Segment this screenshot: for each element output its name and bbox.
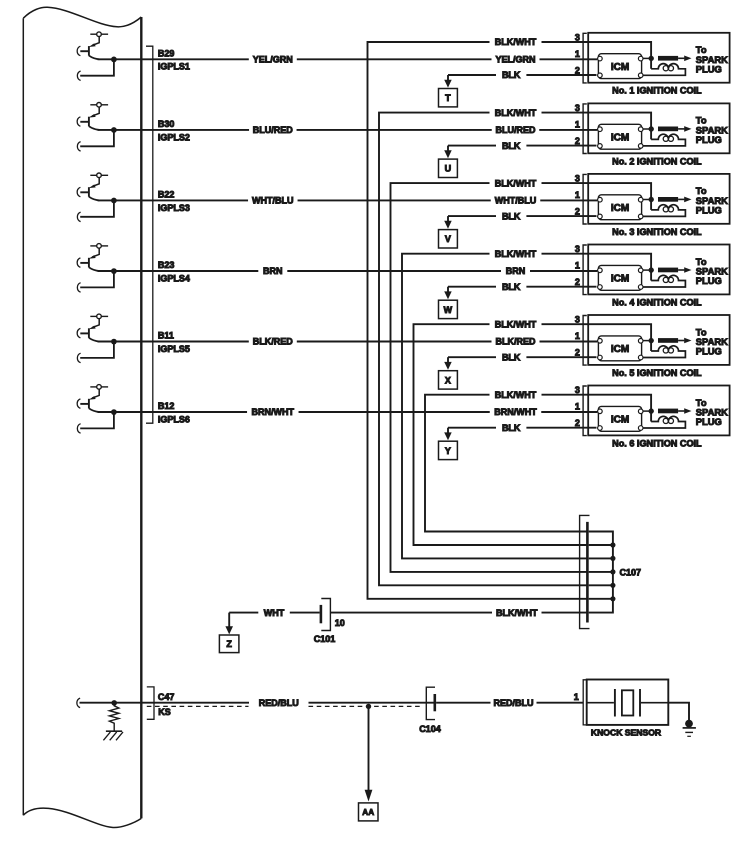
label To SPARK PLUG (No.6) [696, 397, 728, 427]
wire RED/BLU from C47 to C104 [141, 702, 433, 704]
svg-text:BLK: BLK [502, 141, 521, 151]
svg-text:W: W [444, 305, 453, 315]
svg-text:BLK/WHT: BLK/WHT [496, 608, 538, 618]
svg-text:BRN: BRN [506, 266, 526, 276]
pin numbers 3,1,2 of No.3 coil [575, 174, 580, 217]
ignition coil L2 windings [643, 134, 685, 146]
svg-text:2: 2 [575, 207, 580, 217]
svg-text:ICM: ICM [611, 62, 629, 73]
svg-text:1: 1 [575, 402, 580, 412]
svg-text:BLK/WHT: BLK/WHT [495, 108, 537, 118]
svg-text:ICM: ICM [611, 132, 629, 143]
No.6 ignition coil unit box [588, 386, 729, 436]
svg-text:C47: C47 [158, 692, 175, 702]
svg-text:3: 3 [575, 174, 580, 184]
connector bracket at No.4 coil [583, 245, 587, 295]
svg-text:V: V [445, 234, 451, 244]
svg-text:RED/BLU: RED/BLU [259, 698, 299, 708]
svg-text:BLK/WHT: BLK/WHT [495, 319, 537, 329]
svg-text:1: 1 [575, 261, 580, 271]
ignition coil L5 windings [643, 346, 685, 358]
wire: Q2 return branch with junction [77, 127, 116, 151]
No.2 ignition coil unit box [588, 103, 729, 153]
label pin B30 / net IGPLS2 [158, 119, 190, 142]
ignition coil L1 windings [643, 64, 685, 76]
wire BLK from No.4 coil pin 2 to test point W [448, 286, 597, 288]
svg-text:IGPLS4: IGPLS4 [158, 273, 190, 283]
test point AA (arrow + box) [359, 706, 379, 821]
svg-text:1: 1 [575, 190, 580, 200]
connector bracket for ECM pin C47 (KS) [147, 687, 154, 719]
transistor Q1 (IGPLS1 driver) [77, 32, 108, 59]
svg-text:Y: Y [445, 446, 451, 456]
svg-text:C101: C101 [314, 634, 336, 644]
svg-text:BLK: BLK [502, 423, 521, 433]
svg-text:IGPLS3: IGPLS3 [158, 203, 190, 213]
transistor Q6 (IGPLS6 driver) [77, 385, 108, 412]
svg-text:BLK/WHT: BLK/WHT [495, 37, 537, 47]
wire BLK from No.2 coil pin 2 to test point U [448, 145, 597, 147]
wire: Q3 return branch with junction [77, 198, 116, 222]
svg-text:BLK/RED: BLK/RED [496, 337, 536, 347]
wire YEL/GRN from ECM pin B29 to No.1 coil pin 1 [98, 58, 598, 60]
label pin C47 / net KS [158, 692, 175, 717]
svg-text:2: 2 [575, 418, 580, 428]
label pin B22 / net IGPLS3 [158, 190, 190, 213]
label pin B11 / net IGPLS5 [158, 331, 190, 354]
transistor Q5 (IGPLS5 driver) [77, 314, 108, 341]
svg-text:1: 1 [574, 692, 579, 702]
svg-text:PLUG: PLUG [696, 64, 722, 75]
svg-text:1: 1 [575, 120, 580, 130]
svg-text:2: 2 [575, 65, 580, 75]
svg-text:1: 1 [575, 331, 580, 341]
svg-text:ICM: ICM [611, 344, 629, 355]
svg-text:KNOCK SENSOR: KNOCK SENSOR [591, 728, 662, 738]
svg-text:3: 3 [575, 315, 580, 325]
connector C101 (pin 10) [321, 599, 331, 631]
svg-text:AA: AA [362, 808, 374, 817]
test point W (arrow + box) [439, 287, 458, 319]
pin numbers 3,1,2 of No.4 coil [575, 244, 580, 287]
No.1 ignition coil unit box [588, 33, 729, 83]
wire BLK/WHT from No.4 coil pin 3 to C107 [402, 254, 588, 559]
ICM U3 (igniter) [598, 195, 643, 220]
knock sensor box [587, 680, 669, 725]
svg-text:KS: KS [158, 707, 171, 717]
svg-text:BLK: BLK [502, 211, 521, 221]
svg-text:No. 6 IGNITION COIL: No. 6 IGNITION COIL [612, 438, 702, 448]
svg-text:ICM: ICM [611, 203, 629, 214]
coil secondary output bar + arrow to spark plug [658, 267, 692, 273]
chassis ground (ECM internal) [103, 731, 123, 740]
test point V (arrow + box) [439, 216, 458, 248]
wire BLK from No.5 coil pin 2 to test point X [448, 356, 597, 358]
svg-text:BRN/WHT: BRN/WHT [494, 407, 537, 417]
svg-text:B22: B22 [158, 190, 175, 200]
label To SPARK PLUG (No.2) [696, 115, 728, 145]
svg-text:B23: B23 [158, 260, 175, 270]
connector bracket for ECM pins B29-B12 [146, 46, 153, 423]
ignition coil L6 windings [643, 416, 685, 428]
transistor Q2 (IGPLS2 driver) [77, 103, 108, 130]
svg-text:B12: B12 [158, 401, 175, 411]
svg-text:BLK: BLK [502, 70, 521, 80]
wire BLK/WHT from No.1 coil pin 3 to C107 [368, 42, 589, 599]
svg-text:PLUG: PLUG [696, 205, 722, 216]
test point T (arrow + box) [439, 75, 458, 107]
wire to sensor ground [668, 703, 689, 722]
svg-text:No. 3 IGNITION COIL: No. 3 IGNITION COIL [612, 227, 702, 237]
ICM U1 (igniter) [598, 54, 643, 79]
svg-text:PLUG: PLUG [696, 346, 722, 357]
connector bracket at No.3 coil [583, 174, 587, 224]
test point Y (arrow + box) [439, 428, 458, 460]
knock sensor piezo element [587, 689, 669, 717]
svg-text:BLK/WHT: BLK/WHT [495, 178, 537, 188]
wire BLK/WHT from No.3 coil pin 3 to C107 [391, 183, 589, 572]
svg-text:BLK: BLK [502, 282, 521, 292]
label To SPARK PLUG (No.1) [696, 44, 728, 74]
svg-text:WHT: WHT [264, 608, 285, 618]
transistor Q3 (IGPLS3 driver) [77, 173, 108, 200]
coil secondary output bar + arrow to spark plug [658, 56, 692, 62]
coil secondary output bar + arrow to spark plug [658, 408, 692, 414]
wire BRN/WHT from ECM pin B12 to No.6 coil pin 1 [98, 411, 598, 413]
wire BLK/WHT from C101 to C107 [330, 612, 587, 614]
label pin B29 / net IGPLS1 [158, 48, 190, 71]
svg-text:No. 4 IGNITION COIL: No. 4 IGNITION COIL [612, 297, 702, 307]
pin numbers 3,1,2 of No.6 coil [575, 385, 580, 428]
svg-text:10: 10 [335, 618, 345, 628]
wire BLK from No.6 coil pin 2 to test point Y [448, 427, 597, 429]
wire: Q4 return branch with junction [77, 268, 116, 292]
wire RED/BLU from C104 to knock sensor [436, 702, 583, 704]
ICM U6 (igniter) [598, 406, 643, 431]
svg-text:PLUG: PLUG [696, 416, 722, 427]
svg-text:1: 1 [575, 49, 580, 59]
svg-text:U: U [445, 164, 452, 174]
svg-text:ICM: ICM [611, 274, 629, 285]
label pin B23 / net IGPLS4 [158, 260, 190, 283]
ECM internal pull-up resistor R1 on KS line [77, 698, 141, 731]
svg-text:Z: Z [226, 639, 232, 649]
wire: coil pin 3 internal to primary (node at junction) [588, 42, 654, 69]
svg-text:WHT/BLU: WHT/BLU [495, 196, 537, 206]
wire: C107 common bus (right side) [589, 532, 616, 613]
svg-text:IGPLS2: IGPLS2 [158, 132, 190, 142]
svg-text:3: 3 [575, 32, 580, 42]
svg-text:No. 2 IGNITION COIL: No. 2 IGNITION COIL [612, 156, 702, 166]
svg-text:No. 1 IGNITION COIL: No. 1 IGNITION COIL [612, 86, 702, 96]
svg-text:B11: B11 [158, 331, 174, 341]
connector bracket at knock sensor [583, 680, 587, 725]
wire BLK from No.1 coil pin 2 to test point T [448, 74, 597, 76]
svg-text:3: 3 [575, 244, 580, 254]
svg-text:3: 3 [575, 385, 580, 395]
svg-text:WHT/BLU: WHT/BLU [252, 196, 294, 206]
connector bracket at No.5 coil [583, 316, 587, 366]
wire BLK/RED from ECM pin B11 to No.5 coil pin 1 [98, 341, 598, 343]
svg-text:BRN: BRN [263, 266, 283, 276]
ECM/PCM module outline (torn-edge box) [23, 7, 141, 827]
svg-text:PLUG: PLUG [696, 134, 722, 145]
svg-text:BLU/RED: BLU/RED [253, 125, 293, 135]
ICM U5 (igniter) [598, 336, 643, 361]
svg-text:2: 2 [575, 348, 580, 358]
svg-text:2: 2 [575, 136, 580, 146]
svg-text:2: 2 [575, 277, 580, 287]
svg-text:BLK: BLK [502, 352, 521, 362]
shield (dashed) along KS wire [147, 705, 422, 707]
svg-text:C104: C104 [419, 724, 441, 734]
wire BLU/RED from ECM pin B30 to No.2 coil pin 1 [98, 129, 598, 131]
wire: coil pin 3 internal to primary (node at junction) [588, 183, 654, 210]
svg-text:IGPLS1: IGPLS1 [158, 62, 190, 72]
No.3 ignition coil unit box [588, 174, 729, 224]
wire: Q5 return branch with junction [77, 339, 116, 363]
pin numbers 3,1,2 of No.2 coil [575, 103, 580, 146]
wire WHT from Z to C101 [229, 612, 319, 614]
wire: Q6 return branch with junction [77, 409, 116, 433]
svg-text:BLK/WHT: BLK/WHT [495, 390, 537, 400]
ignition coil L3 windings [643, 205, 685, 217]
svg-text:X: X [445, 375, 451, 385]
wire BLK from No.3 coil pin 2 to test point V [448, 215, 597, 217]
svg-text:YEL/GRN: YEL/GRN [495, 55, 535, 65]
wire: coil pin 3 internal to primary (node at junction) [588, 324, 654, 351]
connector bracket at No.1 coil [583, 33, 587, 83]
wire: coil pin 3 internal to primary (node at junction) [588, 254, 654, 281]
wire WHT/BLU from ECM pin B22 to No.3 coil pin 1 [98, 199, 598, 201]
ICM U4 (igniter) [598, 265, 643, 290]
label To SPARK PLUG (No.3) [696, 185, 728, 215]
No.4 ignition coil unit box [588, 245, 729, 295]
svg-text:T: T [445, 93, 451, 103]
label pin B12 / net IGPLS6 [158, 401, 190, 424]
svg-text:BLU/RED: BLU/RED [496, 125, 536, 135]
svg-text:ICM: ICM [611, 415, 629, 426]
wire BLK/WHT from No.2 coil pin 3 to C107 [379, 113, 588, 586]
wire: Q1 return branch with junction [77, 57, 116, 81]
wire BLK/WHT from No.6 coil pin 3 to C107 [425, 395, 588, 532]
svg-text:BRN/WHT: BRN/WHT [252, 407, 295, 417]
pin numbers 3,1,2 of No.5 coil [575, 315, 580, 358]
svg-text:B29: B29 [158, 48, 175, 58]
pin numbers 3,1,2 of No.1 coil [575, 32, 580, 75]
No.5 ignition coil unit box [588, 315, 729, 365]
node: shield junction to AA [366, 704, 371, 709]
connector bracket at No.6 coil [583, 386, 587, 436]
svg-text:No. 5 IGNITION COIL: No. 5 IGNITION COIL [612, 368, 702, 378]
test point Z (arrow + box) [219, 613, 239, 653]
ignition coil L4 windings [643, 275, 685, 287]
coil secondary output bar + arrow to spark plug [658, 126, 692, 132]
wire: coil pin 3 internal to primary (node at junction) [588, 113, 654, 140]
coil secondary output bar + arrow to spark plug [658, 338, 692, 344]
wire BRN from ECM pin B23 to No.4 coil pin 1 [98, 270, 598, 272]
test point X (arrow + box) [439, 357, 458, 389]
svg-text:BLK/RED: BLK/RED [253, 337, 293, 347]
connector C107 [580, 515, 590, 628]
svg-text:B30: B30 [158, 119, 175, 129]
test point U (arrow + box) [439, 146, 458, 178]
connector bracket at No.2 coil [583, 104, 587, 154]
wire BLK/WHT from No.5 coil pin 3 to C107 [414, 324, 589, 545]
svg-text:YEL/GRN: YEL/GRN [253, 55, 293, 65]
transistor Q4 (IGPLS4 driver) [77, 244, 108, 271]
svg-text:IGPLS6: IGPLS6 [158, 414, 190, 424]
label To SPARK PLUG (No.5) [696, 326, 728, 356]
coil secondary output bar + arrow to spark plug [658, 197, 692, 203]
svg-text:IGPLS5: IGPLS5 [158, 344, 190, 354]
svg-text:3: 3 [575, 103, 580, 113]
connector C104 [426, 687, 435, 719]
earth ground at knock sensor [683, 720, 696, 737]
svg-text:C107: C107 [620, 568, 642, 578]
label To SPARK PLUG (No.4) [696, 256, 728, 286]
svg-text:BLK/WHT: BLK/WHT [495, 249, 537, 259]
svg-text:PLUG: PLUG [696, 275, 722, 286]
wire: coil pin 3 internal to primary (node at junction) [588, 395, 654, 422]
svg-text:RED/BLU: RED/BLU [494, 698, 534, 708]
ICM U2 (igniter) [598, 124, 643, 149]
